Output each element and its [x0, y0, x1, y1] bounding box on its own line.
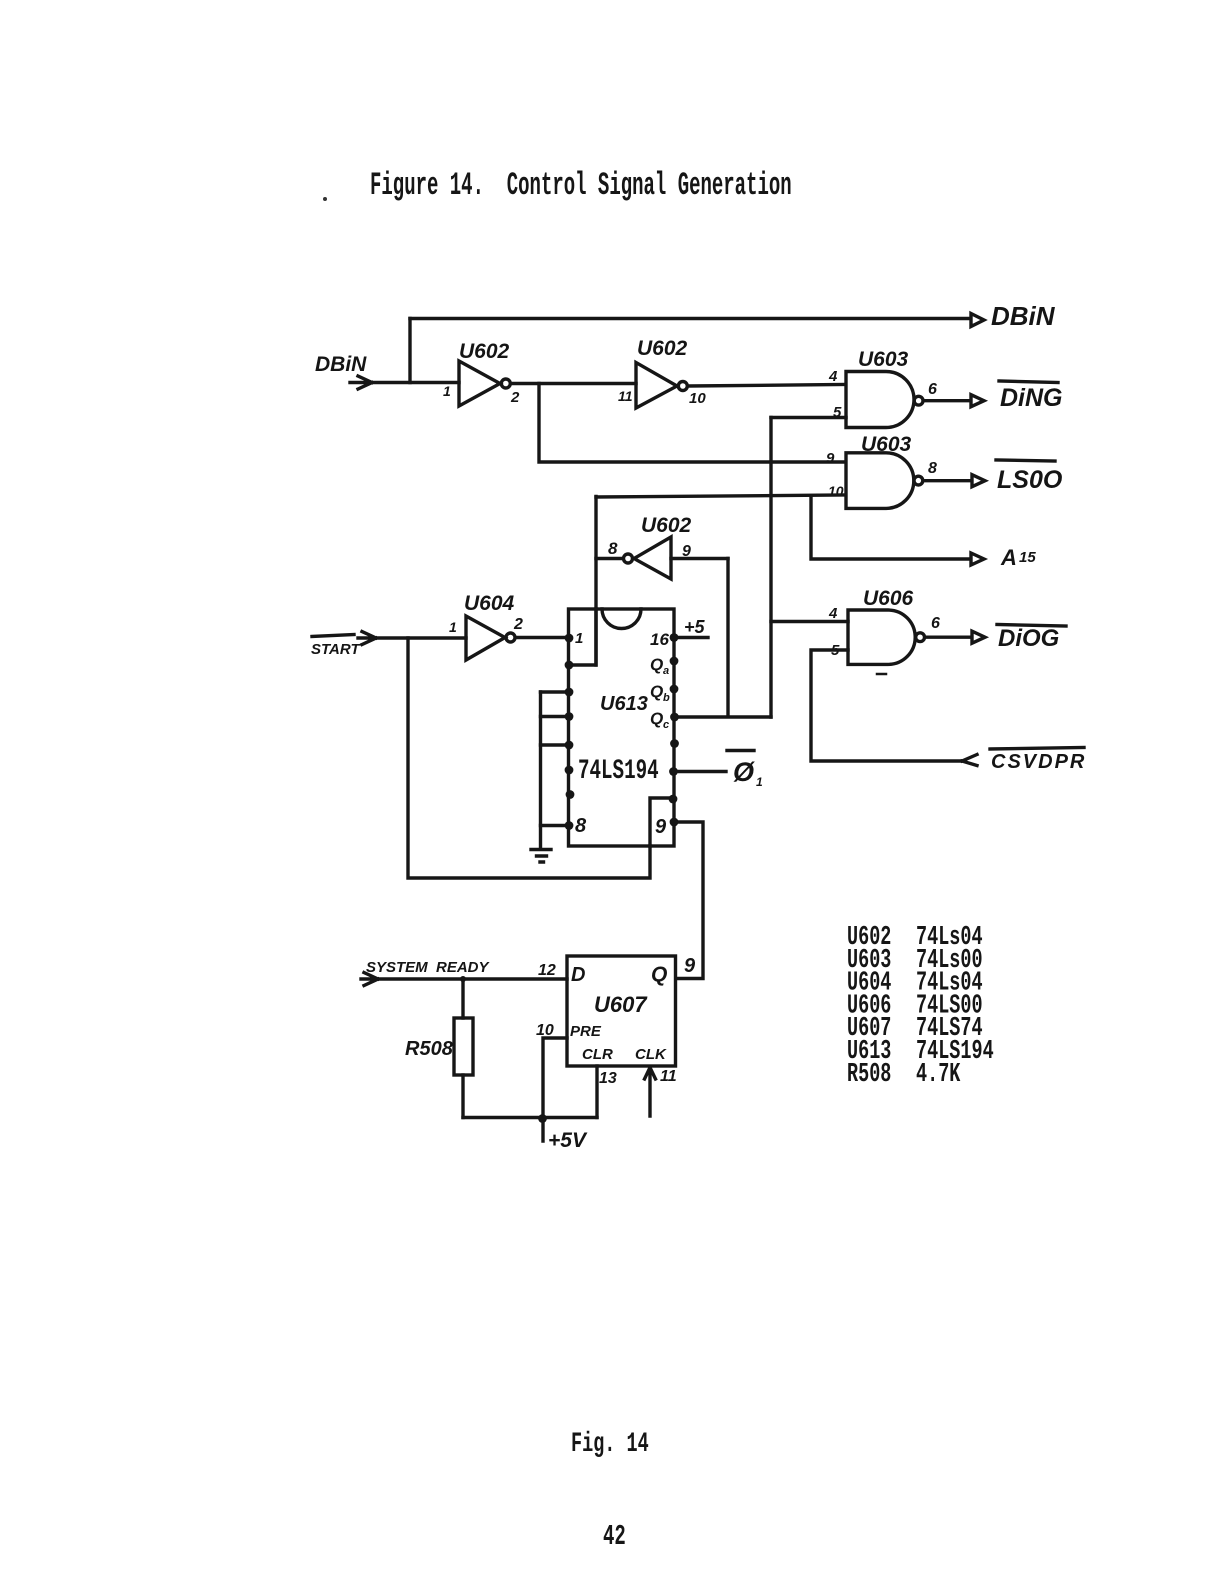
junction dots U613 left edge	[565, 634, 575, 830]
wire inverterB out to U603a pin4	[689, 385, 845, 387]
svg-text:DiNG: DiNG	[1000, 384, 1063, 412]
svg-text:U603: U603	[858, 348, 909, 371]
wire DBIN input arrow	[350, 376, 459, 389]
op-amp U602 inverter B	[636, 363, 677, 409]
wire DIOG output	[928, 636, 971, 639]
svg-text:16: 16	[650, 630, 669, 649]
svg-text:LS0O: LS0O	[997, 466, 1063, 494]
op-amp U602 inverter A	[459, 361, 500, 406]
resistor R508 stem top	[461, 979, 464, 1018]
wire A15 branch	[811, 496, 970, 559]
node START input label	[312, 635, 354, 637]
junction dot system ready / R508	[460, 976, 466, 982]
svg-text:CLK: CLK	[635, 1046, 667, 1063]
wire left strap rectangles on U613	[541, 692, 570, 826]
svg-text:9: 9	[684, 955, 696, 977]
wire START input arrow	[358, 632, 466, 645]
svg-text:2: 2	[513, 616, 523, 633]
wire inverterC output to net	[596, 557, 622, 560]
wire U606 pin4	[771, 620, 848, 623]
svg-text:8: 8	[575, 815, 587, 837]
wire U603a pin5	[771, 416, 846, 419]
svg-text:R508: R508	[405, 1038, 454, 1060]
svg-text:1: 1	[443, 383, 451, 399]
node LSOO label	[996, 460, 1055, 461]
junction dot +5 rail	[538, 1114, 547, 1123]
nand U603 b body	[846, 453, 914, 509]
svg-text:Figure 14. Control Signal Gen: Figure 14. Control Signal Generation	[370, 167, 792, 204]
wire branch down to U603b pin9	[539, 384, 845, 463]
svg-text:4: 4	[828, 368, 838, 385]
svg-text:U604: U604	[464, 592, 515, 615]
svg-text:U607: U607	[594, 992, 648, 1017]
svg-text:74LS194: 74LS194	[578, 756, 659, 787]
svg-text:12: 12	[538, 962, 556, 979]
wire CLK stub arrow	[645, 1068, 656, 1117]
wire +5V rail	[463, 1116, 597, 1119]
op-amp U604 inverter	[466, 616, 505, 660]
svg-text:1: 1	[449, 619, 457, 635]
node CSVDPR label	[990, 748, 1084, 750]
svg-text:+5: +5	[684, 617, 706, 637]
resistor R508 stem bottom	[461, 1075, 464, 1118]
wire U603b pin10 from net y496	[596, 495, 845, 497]
nand U606 body	[848, 610, 915, 664]
svg-text:Fig. 14: Fig. 14	[571, 1429, 649, 1461]
svg-text:START: START	[311, 641, 361, 658]
speck under title	[323, 197, 327, 201]
svg-text:9: 9	[655, 816, 667, 838]
wire Qc to x771 vertical	[675, 715, 771, 718]
svg-text:1: 1	[575, 630, 583, 647]
node CSVDPR arrow	[962, 755, 977, 766]
svg-text:6: 6	[928, 381, 937, 398]
wire vertical x771 (pin5 / U606 pin4 / Qc)	[769, 418, 772, 718]
wire inverterC input	[671, 557, 728, 560]
node phi1 label	[727, 749, 754, 752]
svg-text:c: c	[663, 719, 669, 731]
U613 internal pin1 notch lines	[594, 609, 597, 665]
svg-text:Q: Q	[650, 709, 663, 728]
node DIOG label	[997, 625, 1066, 627]
svg-text:b: b	[663, 692, 670, 704]
wire DING output	[925, 399, 971, 402]
svg-text:+5V: +5V	[548, 1129, 588, 1152]
svg-text:a: a	[663, 665, 669, 677]
nand U603 a body	[846, 372, 914, 428]
node DING label	[999, 381, 1058, 383]
svg-text:SYSTEM READY: SYSTEM READY	[366, 959, 491, 976]
op-amp U602 inverter C (faces left)	[634, 537, 671, 579]
svg-text:CSVDPR: CSVDPR	[991, 751, 1086, 773]
svg-text:DiOG: DiOG	[998, 625, 1059, 652]
svg-text:D: D	[571, 964, 585, 986]
wire CLR to +5 rail	[595, 1066, 598, 1118]
U613 orientation notch	[602, 609, 641, 629]
svg-text:Q: Q	[650, 655, 663, 674]
svg-text:DBiN: DBiN	[991, 301, 1056, 331]
U613 internal pin9 notch	[650, 798, 674, 846]
resistor R508 body	[454, 1018, 473, 1075]
svg-text:8: 8	[608, 539, 618, 558]
svg-text:6: 6	[931, 615, 940, 632]
node DBIN output arrow	[971, 314, 984, 327]
svg-text:1: 1	[756, 775, 763, 789]
svg-text:U606: U606	[863, 587, 914, 610]
wire U604 out to U613 pin1	[517, 636, 569, 639]
svg-text:11: 11	[660, 1068, 677, 1085]
svg-text:R508: R508	[847, 1059, 891, 1089]
node DIOG arrow	[972, 631, 985, 643]
svg-text:11: 11	[618, 388, 633, 404]
svg-text:4.7K: 4.7K	[916, 1059, 961, 1089]
wire vertical x728 to Qc	[726, 559, 729, 717]
svg-text:4: 4	[828, 605, 838, 622]
svg-text:15: 15	[1019, 549, 1036, 566]
svg-text:9: 9	[826, 450, 835, 467]
U613 74LS194 box	[569, 609, 675, 846]
svg-text:Ø: Ø	[733, 757, 755, 787]
wire top DBIN rail	[410, 317, 970, 320]
svg-text:8: 8	[928, 460, 937, 477]
svg-text:10: 10	[689, 390, 706, 407]
svg-text:U602: U602	[637, 337, 688, 360]
wire PRE to +5 rail	[543, 1038, 567, 1141]
node LSOO arrow	[972, 475, 985, 487]
wire inverterA out to inverterB	[512, 382, 636, 385]
ground	[531, 850, 551, 863]
svg-text:CLR: CLR	[582, 1046, 613, 1063]
svg-text:U602: U602	[459, 340, 510, 363]
wire vertical x596	[569, 497, 596, 666]
node A15 arrow	[971, 553, 984, 565]
wire LSOO output	[926, 479, 971, 482]
U607 box	[567, 956, 676, 1066]
node DING arrow	[971, 395, 984, 407]
svg-text:U613: U613	[600, 693, 648, 715]
wire +5 stub	[674, 636, 708, 639]
wire phi1 stub	[673, 770, 726, 773]
svg-text:DBiN: DBiN	[315, 353, 367, 376]
junction dots U613 right edge	[669, 633, 679, 826]
speck dash below U606	[877, 673, 886, 676]
svg-text:U602: U602	[641, 514, 692, 537]
parts list	[847, 922, 994, 1089]
wire vertical to top DBIN rail	[408, 319, 411, 383]
wire SYSTEM READY input	[361, 973, 567, 986]
svg-text:13: 13	[599, 1070, 617, 1087]
svg-text:PRE: PRE	[570, 1023, 602, 1040]
svg-text:A: A	[1000, 545, 1017, 570]
svg-text:Q: Q	[651, 963, 667, 986]
wire U606 pin5 to CSVDPR	[811, 650, 963, 761]
wire left strap vertical	[539, 692, 542, 848]
svg-text:2: 2	[510, 389, 520, 406]
wire pin9 out to U607 Q	[674, 822, 703, 979]
wire branch down feedback	[408, 638, 650, 878]
svg-text:42: 42	[603, 1522, 626, 1554]
svg-text:Q: Q	[650, 682, 663, 701]
